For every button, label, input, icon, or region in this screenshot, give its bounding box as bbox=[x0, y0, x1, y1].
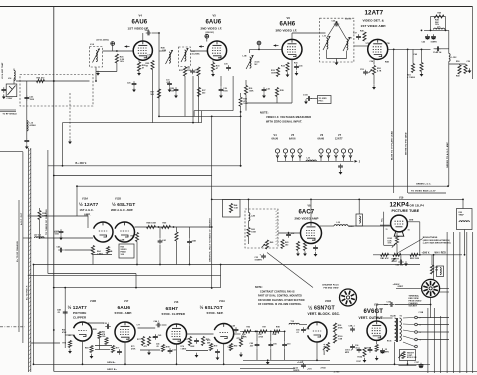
resistor R73 bbox=[147, 337, 150, 346]
svg-text:C35: C35 bbox=[299, 66, 303, 68]
heater label V6b bbox=[318, 138, 325, 141]
label C47 bbox=[431, 42, 438, 44]
capacitor C89 bbox=[255, 342, 260, 348]
svg-text:R45: R45 bbox=[360, 30, 364, 33]
label +140 bbox=[297, 361, 304, 364]
resistor R85 bbox=[430, 265, 433, 274]
test arrow V4 bbox=[125, 45, 130, 47]
capacitor C32 bbox=[286, 232, 291, 238]
tube V11A half 6SL7GT bbox=[214, 324, 233, 344]
resistor R25 bbox=[115, 54, 118, 63]
wire bus y275 bbox=[28, 275, 221, 277]
component box ion trap bbox=[457, 209, 473, 230]
label R49 bbox=[435, 19, 439, 22]
svg-text:(25B MC): (25B MC) bbox=[206, 32, 215, 34]
wire terminal stub 1 bbox=[417, 317, 449, 319]
wire ion out bbox=[464, 230, 466, 255]
label grn b+ bbox=[107, 362, 116, 364]
svg-text:6AU6: 6AU6 bbox=[206, 20, 222, 26]
svg-text:C55: C55 bbox=[228, 347, 231, 349]
wire video out bbox=[388, 48, 431, 50]
label R51 val bbox=[407, 76, 416, 79]
svg-text:10%: 10% bbox=[102, 336, 106, 338]
node junction 21 bbox=[248, 199, 250, 201]
wire sync mid link bbox=[95, 349, 110, 351]
ground C42 bbox=[262, 93, 266, 98]
node junction 19 bbox=[33, 363, 35, 365]
ground trap bbox=[25, 144, 29, 149]
wire peaking top bbox=[431, 16, 446, 18]
svg-text:SOCKET: SOCKET bbox=[409, 306, 418, 308]
wire v6 cathode bbox=[291, 59, 293, 63]
label R41 val bbox=[285, 244, 288, 246]
wire left entry bbox=[0, 151, 23, 153]
node junction 30 bbox=[53, 175, 55, 177]
wire socket tap2 bbox=[439, 291, 449, 293]
label R103c bbox=[388, 243, 392, 245]
wire r99 r100 bbox=[334, 332, 336, 334]
node junction 33 bbox=[447, 185, 449, 187]
wire L16 to V4 grid bbox=[103, 50, 134, 52]
node vert b bbox=[270, 331, 272, 333]
label R25 val bbox=[120, 59, 125, 61]
svg-text:R9B: R9B bbox=[273, 334, 277, 336]
ground C110 bbox=[304, 99, 308, 104]
svg-text:R69: R69 bbox=[85, 348, 89, 350]
tube V19 picture tube bbox=[391, 215, 408, 236]
wire left link343 bbox=[31, 342, 60, 344]
sprinkle s1 bbox=[131, 346, 134, 348]
label R33 val bbox=[271, 72, 276, 74]
sprinkle agc5 bbox=[109, 251, 113, 253]
svg-text:R31: R31 bbox=[179, 70, 183, 72]
wire bus y116 bbox=[159, 115, 241, 117]
sprinkle s11 bbox=[263, 327, 266, 329]
resistor R70 bbox=[68, 341, 71, 348]
wire top border bus bbox=[0, 6, 473, 8]
svg-text:V7A: V7A bbox=[366, 42, 371, 45]
ground R66 bbox=[303, 251, 307, 256]
wire bus grn b+ bbox=[34, 363, 431, 365]
wire r29 drop bbox=[152, 70, 154, 123]
label terminal 2 bbox=[409, 298, 419, 300]
wire blue lead bbox=[393, 49, 395, 193]
label R97b bbox=[259, 336, 264, 339]
label heater 2 bbox=[359, 161, 361, 164]
label C36 bbox=[332, 21, 336, 23]
wire x220 riser bbox=[220, 265, 222, 288]
capacitor C40 bbox=[58, 248, 64, 253]
note2 line1 bbox=[255, 287, 263, 289]
label C27 val bbox=[145, 30, 150, 32]
svg-text:C??: C?? bbox=[137, 325, 141, 327]
sprinkle agc6 bbox=[121, 239, 125, 242]
inductor T3 secondary bbox=[343, 37, 350, 51]
label L15 val bbox=[30, 124, 37, 127]
label R82 bbox=[381, 257, 390, 260]
heater pin arrow 5 bbox=[320, 155, 323, 158]
sprinkle agc4 bbox=[97, 253, 104, 255]
svg-text:PIN END VIEW: PIN END VIEW bbox=[324, 287, 339, 289]
capacitor C115 bbox=[59, 229, 64, 235]
label V11B type bbox=[112, 201, 135, 207]
wire r59b up bbox=[176, 227, 178, 232]
capacitor C36 bbox=[334, 22, 340, 27]
svg-text:2: 2 bbox=[395, 216, 396, 218]
svg-text:L30: L30 bbox=[337, 222, 341, 224]
label L1B bbox=[162, 50, 167, 52]
node v8 plate bus bbox=[310, 199, 312, 201]
svg-text:2ND A.G.C. AMP.: 2ND A.G.C. AMP. bbox=[111, 208, 133, 212]
inductor L47 bbox=[35, 237, 45, 238]
wire bus y199 bbox=[212, 198, 463, 200]
label V6 ref bbox=[287, 16, 291, 20]
capacitor C51 bbox=[117, 349, 122, 355]
ground C66 bbox=[404, 261, 408, 266]
resistor R36 bbox=[244, 86, 247, 95]
resistor R75 bbox=[201, 337, 204, 346]
tube V6 6AH6 bbox=[282, 39, 302, 59]
node peaking a bbox=[430, 30, 432, 32]
svg-text:WHITE TO PIX GRID: WHITE TO PIX GRID bbox=[406, 132, 408, 155]
svg-text:SYNC. CLIPPER: SYNC. CLIPPER bbox=[162, 312, 186, 316]
label V21B ref bbox=[325, 301, 331, 303]
wire green vertical bbox=[211, 116, 213, 288]
dashed box L17 bbox=[179, 47, 191, 67]
wire tuner branch bbox=[47, 150, 49, 274]
svg-text:10%: 10% bbox=[388, 243, 392, 245]
sprinkle p bbox=[414, 53, 418, 56]
label V8 ref bbox=[308, 206, 312, 208]
wire R63 down bbox=[248, 237, 250, 245]
svg-text:12AT7: 12AT7 bbox=[335, 138, 343, 141]
svg-text:12KP4: 12KP4 bbox=[390, 202, 410, 209]
wire c100 right bbox=[395, 304, 431, 306]
label whred bbox=[435, 252, 447, 254]
terminal circle 3 bbox=[415, 331, 418, 334]
capacitor C33 bbox=[261, 254, 266, 260]
wire yoke cable 4 bbox=[466, 232, 468, 373]
capacitor C41 bbox=[158, 239, 163, 245]
svg-text:L20: L20 bbox=[349, 38, 352, 40]
capacitor C49 bbox=[234, 327, 239, 333]
label C97a bbox=[385, 349, 387, 351]
label R99a bbox=[338, 325, 342, 327]
svg-text:47: 47 bbox=[216, 67, 218, 70]
capacitor C44 bbox=[156, 323, 162, 328]
label C49 bbox=[232, 325, 236, 328]
svg-text:47: 47 bbox=[142, 66, 144, 69]
resistor R40 contrast bbox=[265, 240, 268, 249]
node bus165 b bbox=[240, 165, 242, 167]
sprinkle s8 bbox=[207, 342, 211, 344]
label C32 bbox=[291, 233, 295, 235]
svg-text:MFD: MFD bbox=[385, 351, 390, 353]
heater pin circle 6 bbox=[326, 149, 330, 161]
svg-text:100K: 100K bbox=[190, 346, 195, 348]
node junction 35 bbox=[421, 30, 423, 32]
wire yoke cable 3 bbox=[459, 232, 461, 373]
control box height cont bbox=[400, 350, 416, 361]
heater pin circle 8 bbox=[341, 149, 345, 161]
sprinkle s15 bbox=[355, 347, 358, 349]
svg-text:NOTE:: NOTE: bbox=[260, 111, 269, 115]
wire r56 top bbox=[39, 208, 41, 211]
tube V5 6AU6 bbox=[207, 41, 226, 60]
label C33b bbox=[255, 259, 263, 261]
wire if lower link bbox=[246, 102, 292, 104]
svg-text:L16: L16 bbox=[90, 44, 95, 46]
label R60d bbox=[121, 254, 125, 256]
contrast box hatching bbox=[276, 210, 279, 245]
resistor R82 bbox=[381, 253, 389, 256]
label R48 bbox=[456, 75, 460, 78]
svg-text:RB3 150K: RB3 150K bbox=[410, 258, 420, 260]
tube V8 6AC7 bbox=[301, 223, 322, 244]
label R30 bbox=[216, 66, 220, 68]
ground C31 bbox=[168, 87, 172, 92]
label C44 bbox=[154, 320, 160, 323]
node junction 25 bbox=[464, 254, 466, 256]
wire bus y122 bbox=[63, 122, 202, 124]
terminal lead 3 bbox=[403, 330, 415, 332]
svg-text:A.G.C. OUT: A.G.C. OUT bbox=[20, 212, 23, 225]
heater pin arrow 4 bbox=[299, 155, 302, 158]
heater label V5a bbox=[291, 134, 295, 137]
inductor L33 bbox=[459, 221, 469, 222]
label terminal 1 bbox=[409, 295, 420, 298]
label V7B bbox=[386, 43, 391, 45]
svg-text:6AC7: 6AC7 bbox=[299, 210, 315, 216]
svg-text:4.5MH: 4.5MH bbox=[30, 124, 37, 127]
svg-text:R59: R59 bbox=[163, 223, 167, 225]
wire bus y175 bbox=[54, 175, 212, 177]
label R56 bbox=[42, 213, 46, 215]
resistor R34 bbox=[286, 63, 289, 72]
label C110 bbox=[303, 95, 308, 97]
sprinkle s24 bbox=[241, 336, 244, 338]
grid cap V5 bbox=[205, 34, 209, 38]
wire v22 grid drop bbox=[376, 305, 378, 319]
node peaking b bbox=[445, 30, 447, 32]
terminal lead 1 bbox=[403, 317, 415, 320]
heater pin arrow 3 bbox=[291, 155, 294, 158]
wire sync drop c bbox=[176, 344, 178, 364]
svg-text:R95: R95 bbox=[241, 336, 244, 338]
svg-text:MFD: MFD bbox=[345, 352, 350, 354]
wire height drop bbox=[407, 361, 409, 365]
label green loc bbox=[416, 184, 432, 186]
label C98 bbox=[349, 326, 355, 328]
label V21B fn bbox=[308, 312, 341, 316]
wire L122 feed bbox=[448, 30, 450, 53]
resistor R80 bbox=[229, 344, 232, 351]
node r56 agc bbox=[39, 237, 41, 239]
sprinkle s18 bbox=[387, 341, 391, 343]
label V7A bbox=[366, 42, 371, 45]
label C99a bbox=[345, 350, 352, 352]
wire agc out bbox=[22, 152, 24, 343]
tube V10B half 12AT7 bbox=[74, 322, 92, 341]
resistor R97 bbox=[259, 330, 267, 333]
label C89a bbox=[250, 343, 254, 345]
node junction 14 bbox=[407, 363, 409, 365]
resistor R105 bbox=[375, 345, 378, 352]
resistor R78 bbox=[161, 345, 164, 352]
node junction 9 bbox=[176, 363, 178, 365]
resistor R67 bbox=[157, 89, 160, 98]
wire extra yoke a bbox=[427, 308, 429, 373]
sprinkle j bbox=[294, 63, 298, 65]
label R77 bbox=[116, 348, 120, 350]
node plate bus bottom bbox=[158, 116, 160, 118]
sprinkle s21 bbox=[62, 330, 66, 332]
svg-text:270Ω: 270Ω bbox=[321, 367, 326, 369]
label R36 val bbox=[249, 90, 254, 92]
label V21B type bbox=[308, 305, 335, 312]
wire c89 up bbox=[256, 331, 258, 341]
label C29 val bbox=[223, 90, 227, 92]
label V6 function bbox=[276, 29, 298, 33]
sprinkle q bbox=[456, 61, 460, 63]
wire bus grey b+ bbox=[54, 370, 477, 372]
label C4B val bbox=[57, 312, 60, 314]
node junction 26 bbox=[376, 317, 378, 319]
wire terminal stub 3 bbox=[417, 331, 449, 333]
heater label V5b bbox=[289, 138, 296, 141]
sprinkle m bbox=[349, 38, 352, 40]
heater label V4a bbox=[274, 134, 278, 137]
label C35 bbox=[299, 66, 303, 68]
label V11B fn1 bbox=[111, 208, 133, 212]
label R36 bbox=[249, 88, 253, 90]
svg-text:+390 V.: +390 V. bbox=[422, 252, 431, 254]
label terminal pin 7 bbox=[420, 318, 422, 320]
wire c48 up bbox=[189, 227, 191, 239]
svg-text:SYNC. SEP.: SYNC. SEP. bbox=[207, 311, 224, 315]
wire c93 up bbox=[284, 331, 286, 341]
heater pin circle 4 bbox=[298, 149, 302, 161]
wire r48 link bbox=[449, 63, 466, 65]
label brightness 2 bbox=[423, 239, 450, 242]
tube V22 6V6GT bbox=[367, 321, 386, 340]
label L21 bbox=[437, 27, 441, 29]
wire V4 plate up bbox=[142, 33, 144, 41]
sprinkle s20 bbox=[93, 329, 98, 331]
svg-text:10%: 10% bbox=[120, 61, 124, 63]
tube V16 6SH7 bbox=[167, 324, 187, 344]
node junction 1 bbox=[76, 185, 78, 187]
node junction 31 bbox=[53, 287, 55, 289]
svg-text:-2.70V.: -2.70V. bbox=[334, 372, 341, 374]
capacitor C34 bbox=[313, 245, 318, 251]
wire L18 to grid bbox=[249, 49, 251, 53]
sprinkle s12 bbox=[276, 327, 280, 329]
node L16 bottom bbox=[95, 80, 97, 82]
sprinkle c bbox=[161, 48, 165, 50]
wire agc bottom link bbox=[93, 254, 112, 256]
label C50s bbox=[104, 323, 110, 325]
capacitor C30 bbox=[190, 69, 195, 75]
wire grid v8 bbox=[278, 232, 301, 234]
sprinkle o bbox=[385, 61, 389, 64]
label C14B bbox=[433, 51, 441, 54]
svg-text:C39: C39 bbox=[224, 64, 228, 66]
wire tuner link bbox=[16, 80, 90, 82]
label C33a bbox=[255, 257, 259, 259]
label grey b+ bbox=[107, 369, 118, 371]
ground R70 bbox=[68, 349, 72, 354]
svg-text:B+ 230 V.: B+ 230 V. bbox=[76, 162, 88, 165]
label L28 bbox=[251, 216, 255, 218]
sprinkle s5 bbox=[181, 345, 184, 348]
label C28 bbox=[170, 88, 174, 90]
capacitor C55 bbox=[215, 349, 220, 355]
note line 2 bbox=[266, 115, 311, 119]
label R30 val bbox=[216, 67, 218, 70]
wire T3 out bbox=[354, 45, 369, 47]
label R37 bbox=[202, 90, 206, 92]
svg-text:R79: R79 bbox=[214, 346, 218, 348]
resistor R51 bbox=[411, 64, 414, 73]
svg-text:41.25MC: 41.25MC bbox=[192, 52, 201, 55]
wire sync link2 bbox=[187, 333, 214, 335]
label R49 val bbox=[435, 22, 439, 24]
svg-text:OR 12LP4: OR 12LP4 bbox=[410, 204, 425, 208]
leader line contrast note bbox=[267, 253, 313, 288]
label R98h bbox=[273, 334, 277, 336]
node junction 23 bbox=[462, 199, 464, 201]
ground V7 cathode bbox=[372, 85, 376, 90]
label L17 val bbox=[192, 52, 201, 55]
resistor R68 agc bbox=[106, 247, 109, 254]
svg-text:R24 470: R24 470 bbox=[37, 77, 45, 80]
wire bus y216 agc bbox=[28, 215, 88, 217]
transformer T5 core bbox=[396, 318, 397, 342]
capacitor C14B bbox=[435, 46, 441, 51]
svg-text:L47 2.2: L47 2.2 bbox=[34, 234, 41, 237]
label V19 ref bbox=[399, 198, 404, 200]
inductor L1B interstage bbox=[166, 50, 173, 64]
resistor R44 bbox=[229, 204, 232, 213]
sprinkle f bbox=[166, 80, 170, 82]
wire yoke cable 2 bbox=[453, 232, 455, 373]
label L122 bbox=[452, 57, 458, 59]
sprinkle b bbox=[148, 57, 151, 59]
label R85 bbox=[435, 267, 439, 269]
wire r51 up bbox=[412, 49, 414, 63]
svg-text:R72: R72 bbox=[137, 339, 141, 341]
label C30 bbox=[195, 70, 199, 72]
capacitor C22 bbox=[1, 87, 6, 93]
label L30 bbox=[337, 222, 341, 224]
capacitor C4B bbox=[63, 310, 68, 316]
label R63 val bbox=[251, 231, 256, 233]
svg-text:C41: C41 bbox=[162, 239, 166, 242]
svg-text:L1B: L1B bbox=[243, 56, 248, 58]
mixer crystal slash bbox=[8, 86, 16, 96]
wire v11a out bbox=[234, 333, 241, 335]
label C45 bbox=[158, 334, 162, 337]
tube V4 6AU6 bbox=[133, 41, 152, 60]
component box L34 bbox=[437, 266, 444, 277]
inductor L122 bbox=[449, 54, 450, 62]
wire V4 grid return bbox=[96, 71, 117, 73]
svg-text:V11B: V11B bbox=[115, 199, 121, 201]
control box video peak R60 bbox=[119, 244, 134, 258]
wire v10b grid bbox=[65, 334, 73, 336]
sprinkle pix3 bbox=[386, 229, 388, 231]
